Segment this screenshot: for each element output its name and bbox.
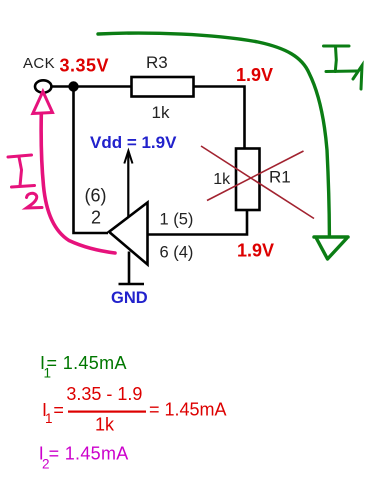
svg-text:3.35V: 3.35V bbox=[60, 56, 110, 76]
svg-text:GND: GND bbox=[111, 289, 148, 307]
Vdd supply arrowhead bbox=[124, 151, 132, 164]
Vdd supply arrow line bbox=[127, 152, 129, 217]
svg-text:= 1.45mA: = 1.45mA bbox=[149, 400, 227, 420]
current arrow I2 magenta curve bbox=[41, 114, 115, 253]
svg-text:=: = bbox=[53, 400, 64, 420]
red cross line B over R1 bbox=[207, 151, 304, 201]
svg-text:ACK: ACK bbox=[23, 55, 55, 72]
resistor R3 bbox=[132, 77, 194, 97]
svg-text:1k: 1k bbox=[152, 103, 170, 122]
svg-text:= 1.45mA: = 1.45mA bbox=[49, 443, 129, 463]
wire R1 bottom to buffer output bbox=[148, 210, 247, 235]
wire R3 to R1 top bbox=[194, 87, 245, 149]
green ground symbol top bar bbox=[314, 235, 348, 239]
svg-text:1k: 1k bbox=[213, 171, 231, 188]
current label I1 green bbox=[324, 46, 363, 89]
resistor R1 bbox=[236, 149, 260, 211]
wire ACK to R3 bbox=[50, 85, 132, 88]
svg-text:1 (5): 1 (5) bbox=[160, 211, 194, 229]
svg-text:2: 2 bbox=[91, 208, 101, 228]
ground bar bbox=[119, 283, 145, 286]
current label I2 magenta bbox=[8, 155, 42, 208]
svg-text:Vdd = 1.9V: Vdd = 1.9V bbox=[90, 133, 177, 152]
svg-text:1.9V: 1.9V bbox=[237, 241, 274, 261]
svg-text:= 1.45mA: = 1.45mA bbox=[47, 353, 127, 373]
green ground symbol triangle bbox=[317, 239, 347, 260]
svg-text:R1: R1 bbox=[269, 168, 291, 187]
svg-text:3.35 - 1.9: 3.35 - 1.9 bbox=[66, 384, 142, 404]
svg-text:1: 1 bbox=[45, 411, 53, 426]
buffer U1 triangle bbox=[109, 203, 148, 265]
wire left rail to buffer input bbox=[74, 87, 109, 234]
junction node dot bbox=[68, 81, 78, 91]
result line I1 = 1.45mA green bbox=[40, 353, 127, 381]
svg-text:1.9V: 1.9V bbox=[236, 65, 273, 85]
current arrow I1 green curve bbox=[98, 33, 329, 235]
red cross line A over R1 bbox=[201, 146, 314, 219]
svg-text:1k: 1k bbox=[95, 415, 115, 435]
svg-text:R3: R3 bbox=[146, 53, 168, 72]
current arrow I2 magenta arrowhead bbox=[33, 92, 53, 114]
svg-text:6 (4): 6 (4) bbox=[160, 244, 194, 262]
terminal ACK (open circle) bbox=[35, 80, 51, 92]
svg-text:(6): (6) bbox=[85, 186, 107, 206]
formula line I1 red bbox=[42, 384, 227, 435]
wire buffer to ground bbox=[128, 252, 131, 285]
result line I2 = 1.45mA magenta bbox=[39, 443, 129, 471]
